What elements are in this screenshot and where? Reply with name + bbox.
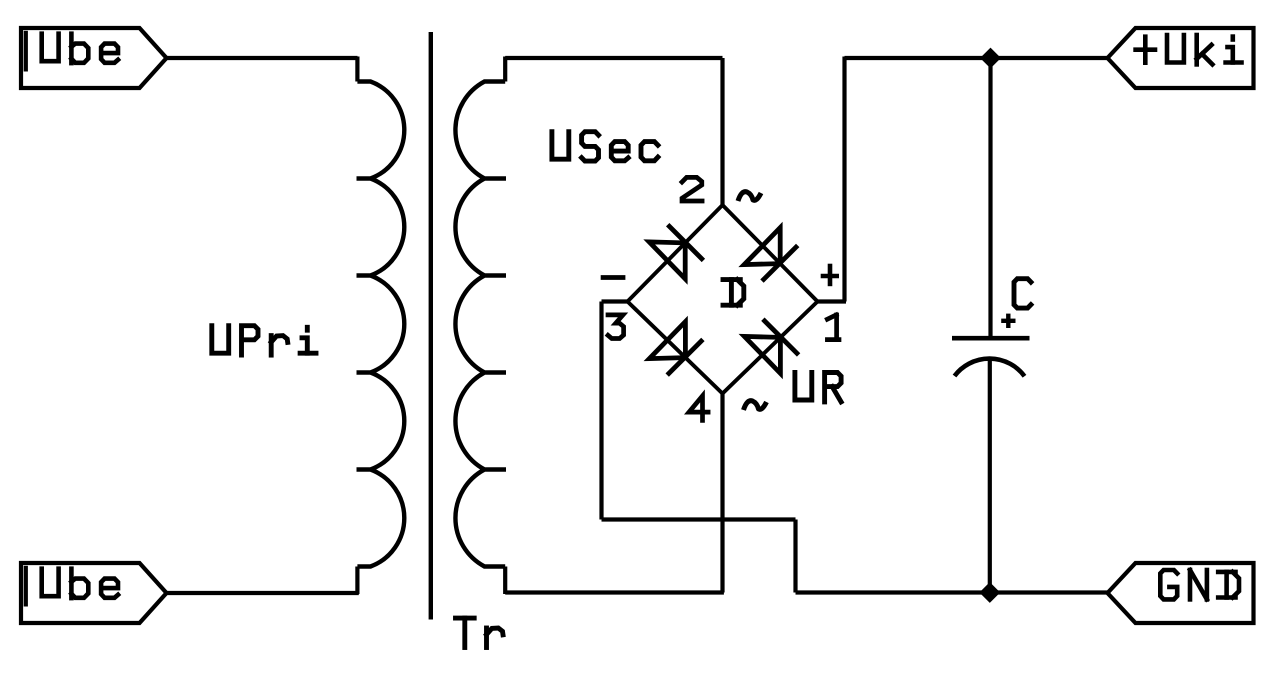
wire node 3 down: [599, 302, 603, 520]
transformer Tr core: [429, 32, 433, 620]
pin + label: [821, 264, 839, 287]
junction node +Uki/C: [980, 48, 1001, 69]
port flag Ube (bottom input): [21, 563, 167, 623]
diode D4 (node4-node1): [744, 336, 780, 373]
transformer secondary winding USec: [455, 82, 506, 567]
wire secondary top to bridge node 2: [505, 56, 722, 60]
transformer primary winding UPri: [357, 82, 405, 567]
pin ~ label top: [738, 192, 761, 201]
diode D1 (node3-node2): [649, 242, 685, 279]
wire bridge node 4 down: [720, 394, 724, 593]
pin 3 label: [608, 315, 624, 339]
port flag +Uki (output): [1108, 28, 1254, 88]
wire bridge node 1 stub: [818, 299, 847, 303]
diode D2 (node2-node1): [744, 228, 780, 265]
label D: [723, 280, 744, 306]
wire capacitor top lead: [988, 58, 992, 337]
wire node 3 horizontal: [602, 517, 796, 521]
port flag Ube (top input): [21, 28, 167, 88]
capacitor + polarity: [1001, 314, 1015, 328]
wire node 3 down to bottom rail: [793, 520, 797, 593]
junction node GND/C: [979, 582, 1000, 603]
wire down to bridge node 2: [720, 58, 724, 205]
wire capacitor bottom lead: [988, 360, 992, 593]
capacitor C bottom plate: [955, 359, 1025, 377]
port flag GND: [1108, 563, 1254, 623]
label UR: [795, 373, 841, 402]
label UPri: [212, 326, 316, 355]
pin - label: [601, 275, 626, 280]
wire bridge node 3 stub: [602, 299, 628, 303]
pin 1 label: [827, 315, 839, 340]
bridge rectifier D diamond: [628, 205, 818, 394]
diode D3 (node3-node4): [649, 322, 685, 359]
wire bottom rail to GND: [796, 590, 1108, 594]
pin ~ label bottom: [744, 401, 767, 410]
label Tr: [456, 618, 504, 647]
label USec: [552, 132, 658, 161]
wire secondary top pin: [503, 57, 507, 82]
wire primary top pin: [355, 57, 359, 82]
wire primary bottom pin: [355, 567, 359, 595]
pin 2 label: [682, 177, 702, 201]
wire top rail to +Uki: [845, 56, 1108, 60]
wire Ube top to primary: [167, 56, 358, 60]
wire secondary bottom pin: [503, 567, 507, 595]
wire bridge node 1 up: [842, 57, 846, 302]
wire primary bottom to Ube: [167, 591, 359, 595]
pin 4 label: [689, 396, 708, 421]
wire secondary bottom rail: [505, 590, 724, 594]
capacitor C top plate: [952, 336, 1030, 341]
label C: [1014, 279, 1031, 308]
